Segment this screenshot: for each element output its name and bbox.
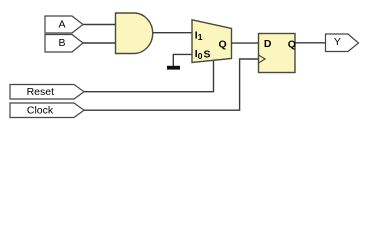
wire Reset to MUX S — [84, 61, 214, 92]
wire A to AND — [83, 24, 116, 26]
svg-text:Clock: Clock — [27, 105, 54, 117]
clock edge triangle — [259, 55, 266, 63]
input flag Clock — [10, 103, 84, 118]
output flag Y — [326, 34, 359, 52]
svg-text:Q: Q — [288, 38, 296, 50]
wire ground to MUX I0 — [173, 54, 192, 66]
wire B to AND — [83, 42, 116, 44]
input flag B — [45, 35, 83, 53]
svg-text:D: D — [264, 38, 272, 50]
wire Clock to FF clock — [84, 59, 259, 110]
input flag A — [45, 16, 83, 33]
multiplexer — [192, 20, 232, 63]
svg-text:A: A — [58, 19, 65, 31]
svg-text:I0S: I0S — [195, 48, 211, 61]
wire MUX Q to FF D — [232, 42, 259, 44]
svg-text:B: B — [58, 37, 65, 49]
svg-text:Reset: Reset — [27, 86, 55, 98]
svg-text:Q: Q — [219, 39, 227, 51]
ground symbol — [167, 66, 180, 70]
AND gate — [116, 13, 153, 54]
wire AND to MUX I1 — [153, 32, 193, 34]
input flag Reset — [10, 85, 84, 100]
svg-text:I1: I1 — [195, 29, 203, 42]
svg-text:Y: Y — [334, 36, 341, 48]
wire FF Q to Y — [295, 42, 326, 44]
D flip-flop — [259, 34, 296, 73]
